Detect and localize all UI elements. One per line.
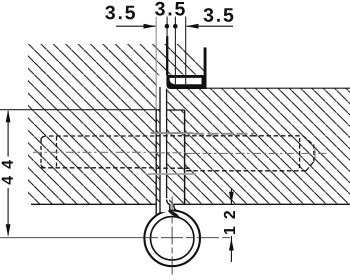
arrow up 12 xyxy=(229,238,234,250)
hidden dowel hole door: chamfer top xyxy=(303,136,313,145)
hidden dowel hole frame: top dashed xyxy=(49,135,156,137)
dim line 12 lower xyxy=(230,236,232,262)
knuckle horizontal centerline solid part xyxy=(0,237,150,239)
hidden dowel hole frame: left end xyxy=(40,140,42,165)
hinge leaf right edge xyxy=(166,89,168,200)
knuckle horizontal centerline dash-dot part xyxy=(150,237,233,239)
knuckle inner circle xyxy=(151,217,194,260)
extension line 3 xyxy=(174,17,176,85)
arrow left tip right dim xyxy=(186,24,199,29)
hidden dowel hole frame: inner end xyxy=(56,137,58,168)
extension line 4 xyxy=(185,17,187,85)
arrow right tip left dim xyxy=(144,24,157,29)
gap joint thick line xyxy=(166,36,168,75)
gray screw bar lower xyxy=(148,173,196,175)
door rebate top surface line xyxy=(206,87,350,89)
dim line 3.5 right xyxy=(187,25,234,27)
label 3.5 right xyxy=(204,8,234,22)
door dowel axis centerline xyxy=(186,152,327,154)
dowel axis centerline across mortise box xyxy=(156,152,186,154)
neck channel white-out xyxy=(161,198,169,212)
door dowel axis tick xyxy=(314,149,316,159)
mortise box top edge right part xyxy=(167,109,185,111)
hidden dowel hole frame: bottom dashed xyxy=(41,167,156,169)
dim line 44 upper xyxy=(7,111,9,157)
hidden dowel hole door: tip end xyxy=(313,145,315,163)
flange right edge tall bar xyxy=(204,47,207,89)
label 3.5 middle xyxy=(155,2,185,16)
frame bottom edge left segment xyxy=(31,203,157,205)
gray screw top overlay xyxy=(193,133,254,135)
extension line 2 stub xyxy=(166,17,168,37)
dim line 44 lower xyxy=(7,188,9,236)
knuckle outer ring xyxy=(144,211,200,267)
knuckle junction wedge xyxy=(168,210,181,218)
hidden hole bottom dashed across mortise box xyxy=(156,167,190,169)
gray screw bar upper xyxy=(151,132,194,134)
frame section hatching (top-left block) xyxy=(28,44,205,204)
hinge flange inner slot xyxy=(170,78,202,84)
neck right inner line xyxy=(167,200,174,213)
mortise box interior hatching xyxy=(156,110,185,204)
dim dot middle left xyxy=(165,24,170,29)
label 44 xyxy=(2,160,13,184)
label 3.5 left xyxy=(105,6,135,20)
hidden dowel hole door: bottom dashed xyxy=(186,170,307,172)
hidden dowel hole frame: corner bottom xyxy=(41,165,46,168)
arrow down 44 xyxy=(6,224,11,236)
hidden dowel hole door: top dashed xyxy=(252,135,303,137)
leaf top reference line (44 dim top) xyxy=(0,109,160,111)
hidden dowel hole frame: corner top xyxy=(41,136,46,139)
mortise box left edge continuing into neck xyxy=(155,110,157,216)
hidden dowel hole door: inner end xyxy=(299,138,301,170)
hidden hole top dashed across mortise box xyxy=(156,135,252,137)
mortise box right edge xyxy=(184,110,186,204)
door bottom edge right segment xyxy=(174,203,350,205)
extension line 1 gray xyxy=(155,17,157,109)
label 12 xyxy=(224,211,235,234)
hinge leaf left edge continuing into neck xyxy=(159,87,161,214)
dim line 3.5 left xyxy=(116,25,155,27)
dim line 12 upper xyxy=(230,189,232,205)
hinge flange body xyxy=(166,75,206,89)
door section hatching (bottom-right block) xyxy=(167,88,350,204)
hidden dowel hole door: chamfer bottom xyxy=(306,162,314,171)
neck right outer line xyxy=(174,204,178,211)
dim dot middle right xyxy=(173,24,178,29)
arrow down 12 xyxy=(229,192,234,204)
arrow up 44 xyxy=(6,110,11,122)
knuckle vertical centerline xyxy=(171,197,173,277)
frame dowel axis centerline xyxy=(33,151,156,153)
